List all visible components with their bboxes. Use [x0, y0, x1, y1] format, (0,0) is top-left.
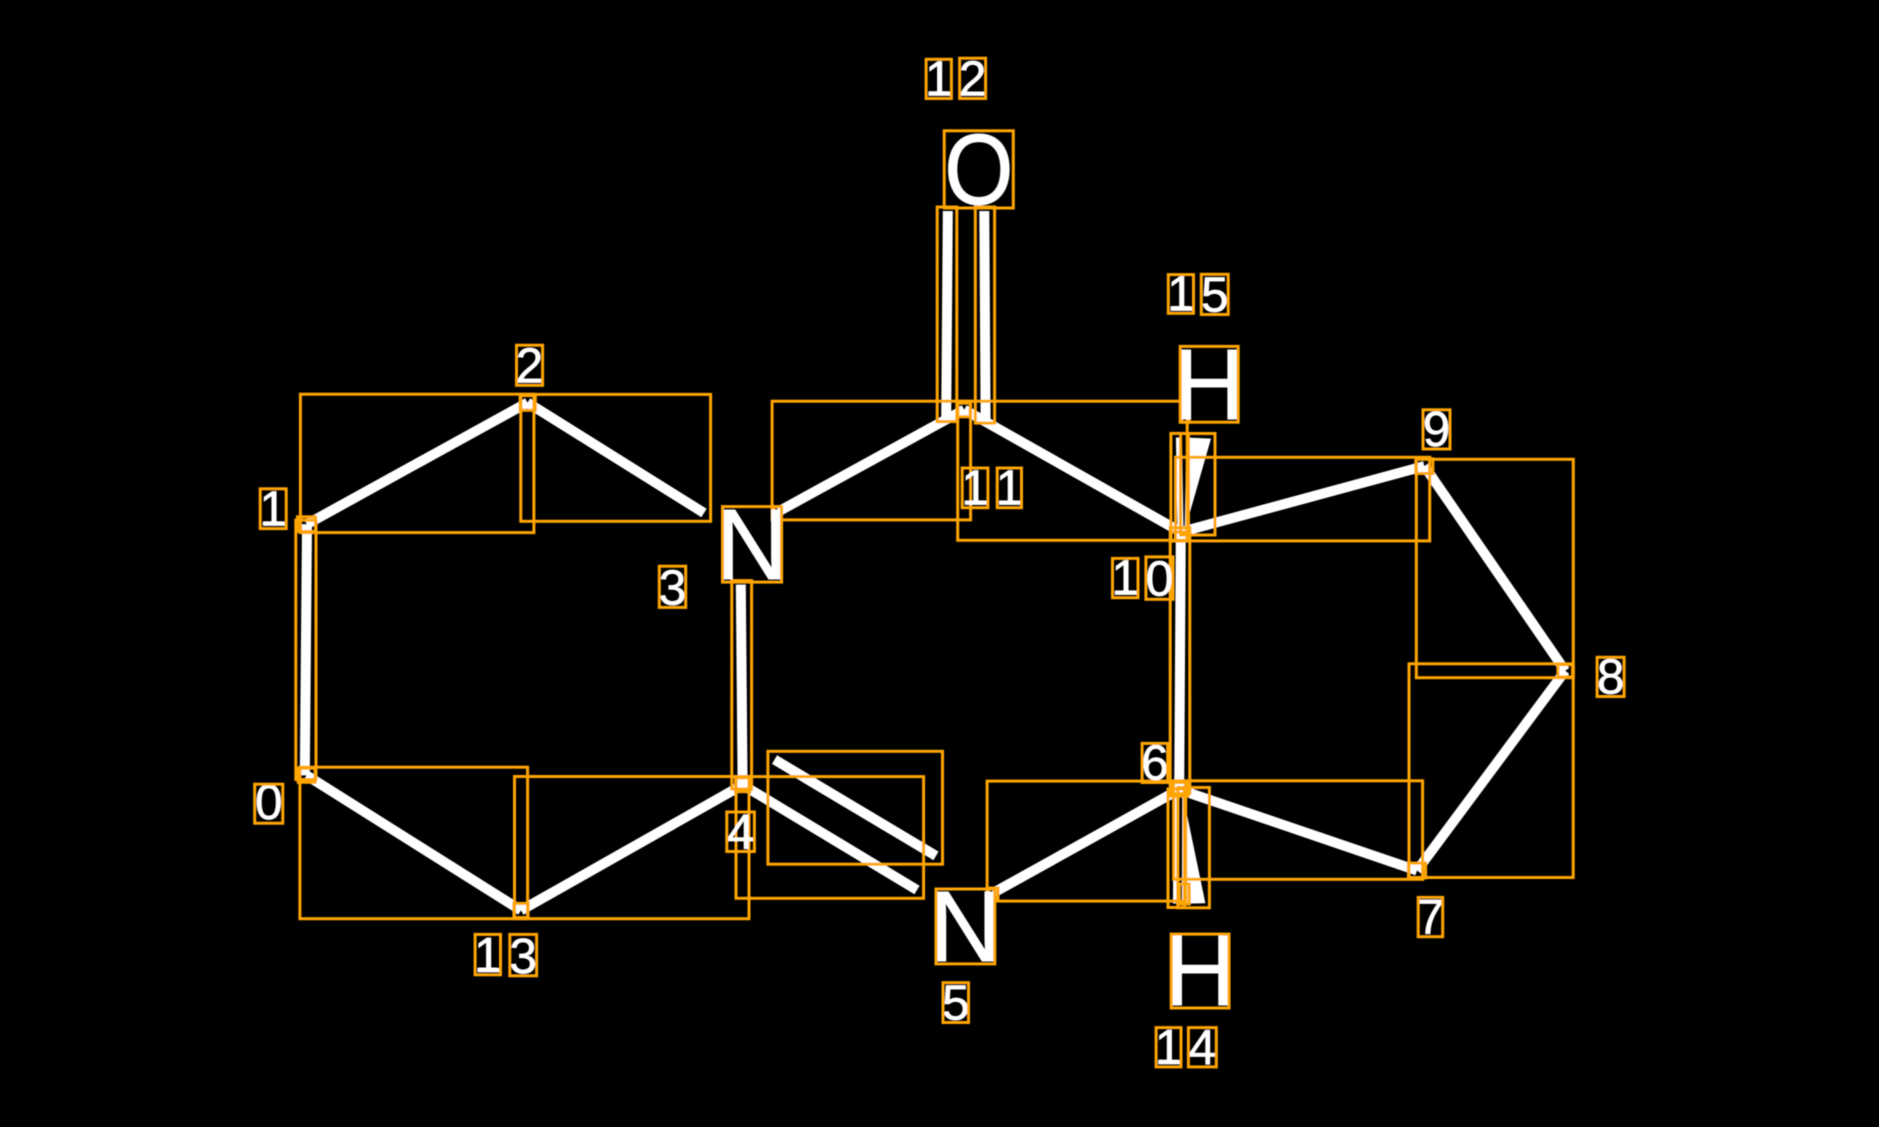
- bond 4-5 line2: [775, 760, 937, 856]
- atom 13 box bbox: [514, 903, 528, 917]
- bond 0-1 bbox: [296, 520, 316, 779]
- wedge 10-15 line bbox: [1171, 433, 1189, 532]
- atom 14 attach box bbox: [1179, 884, 1189, 904]
- atom 10 box bbox: [1171, 528, 1189, 541]
- atom 2 box bbox: [520, 396, 535, 411]
- bond 6-10 bbox: [1170, 528, 1190, 794]
- atom 7 box bbox: [1408, 863, 1425, 878]
- bond 8-9 bbox: [1416, 459, 1573, 677]
- bond 1-2: [307, 403, 528, 525]
- wedge 6-14 line bbox: [1168, 789, 1184, 908]
- bond 1-2 bbox: [300, 394, 534, 532]
- atom 0 box bbox: [298, 768, 315, 782]
- bond 10-11 bbox: [958, 401, 1187, 540]
- bond 5-6: [994, 790, 1180, 893]
- bond 0-13 bbox: [300, 767, 528, 919]
- wedge 10-15 triangle bbox: [1181, 434, 1215, 536]
- bond 4-5 line1 bbox: [736, 777, 924, 899]
- bond 8-9: [1424, 466, 1565, 671]
- bond 13-4: [521, 785, 743, 911]
- bond 11-12 line1: [946, 211, 948, 418]
- wedge 10-15 triangle: [1185, 438, 1211, 532]
- wedge 6-14 triangle bbox: [1178, 788, 1210, 908]
- bond 0-1: [305, 524, 307, 775]
- atom 11 box bbox: [958, 403, 970, 417]
- bond 7-8: [1417, 671, 1565, 871]
- atom 5 attach box bbox: [988, 888, 998, 900]
- wedge 6-14 line: [1173, 793, 1179, 904]
- atom 4 box bbox: [735, 778, 750, 792]
- bond 3-4: [741, 585, 743, 785]
- svg-text:H: H: [1164, 915, 1236, 1027]
- atom 9 box bbox: [1416, 459, 1433, 474]
- bond 11-3 bbox: [772, 401, 971, 520]
- bond 9-10: [1181, 466, 1425, 532]
- atom 1 box bbox: [297, 517, 315, 532]
- bond 4-5 line2 bbox: [768, 751, 943, 864]
- bond 2-3: [528, 403, 705, 513]
- bond 11-12 line2: [984, 211, 985, 419]
- bond 6-7: [1179, 790, 1417, 871]
- bond 0-13: [307, 775, 521, 910]
- bond 6-7 bbox: [1174, 781, 1423, 880]
- wedge 10-15 line: [1179, 438, 1181, 529]
- bond 3-4 bbox: [732, 581, 752, 789]
- bond 7-8 bbox: [1409, 664, 1573, 878]
- bond 11-3: [779, 410, 965, 512]
- atom 8 box bbox: [1558, 665, 1573, 677]
- bond 11-12 line2 bbox: [975, 207, 994, 423]
- bond 11-12 line1 bbox: [937, 207, 957, 422]
- bond 6-10: [1179, 532, 1181, 790]
- bond 13-4 bbox: [515, 777, 750, 919]
- bond 10-11: [964, 410, 1181, 532]
- atom 3 attach box bbox: [774, 507, 782, 519]
- atom 6 box bbox: [1171, 783, 1188, 797]
- bond 2-3 bbox: [521, 394, 711, 521]
- bond 9-10 bbox: [1176, 457, 1430, 541]
- atom 15 attach box bbox: [1182, 402, 1190, 422]
- bond 5-6 bbox: [987, 781, 1186, 901]
- wedge 6-14 triangle: [1182, 792, 1206, 904]
- bond 4-5 line1: [743, 785, 917, 890]
